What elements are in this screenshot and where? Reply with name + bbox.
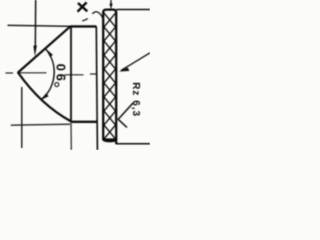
svg-text:90: 90	[53, 61, 68, 81]
centerline (axis)	[6, 73, 97, 75]
lower diagonal (cone edge)	[18, 73, 71, 122]
svg-text:Rz 6,3: Rz 6,3	[130, 82, 141, 117]
top extension line	[8, 25, 71, 26]
bar lattice zigzag B	[104, 13, 116, 139]
arrowhead down on leader	[33, 45, 37, 56]
bottom right horizontal	[116, 143, 150, 145]
leader curve from X to bar	[82, 12, 103, 21]
bar lattice zigzag A	[104, 13, 116, 139]
bar leader arrow vertical	[110, 0, 112, 5]
arc arrowhead upper	[46, 49, 53, 57]
horizontal line top right	[117, 9, 151, 11]
body left vertical edge	[70, 26, 72, 121]
right edge vertical	[96, 26, 97, 150]
vertical extension below body x=71	[70, 122, 72, 150]
bottom edge thick	[71, 121, 97, 123]
vertical extension x=22	[21, 87, 23, 148]
bottom extension line	[11, 124, 70, 125]
arc arrowhead lower	[40, 93, 48, 100]
bar bottom cap	[103, 138, 116, 142]
degree circle of 90deg label	[55, 83, 59, 87]
surface finish symbol (check mark pointing left)	[118, 103, 133, 128]
top edge thick	[70, 25, 96, 27]
bar leader arrowhead	[109, 4, 112, 10]
right leader arrowhead	[119, 68, 130, 72]
dimension arc 90 deg	[41, 49, 55, 100]
bar outline (rounded top)	[103, 10, 116, 144]
wire: vertical leader at x=35.5	[34, 0, 36, 47]
upper diagonal (cone edge)	[18, 26, 70, 72]
leader arrow right side	[121, 53, 150, 71]
label X	[78, 2, 88, 11]
